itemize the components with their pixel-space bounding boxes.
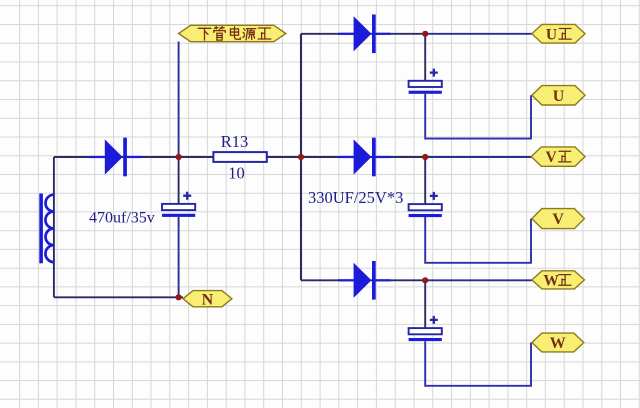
inductor core bar <box>39 194 43 264</box>
wire: row3 bottom diode row to port W正 <box>301 279 425 281</box>
svg-text:W: W <box>543 273 559 290</box>
diode D3 (V rectifier) <box>338 138 391 177</box>
junction V+ node <box>422 154 428 160</box>
port V正 <box>531 147 585 166</box>
wire: drop from port 下管电源正 to R13 node <box>178 42 180 158</box>
capacitor C4 470uf/35v <box>162 192 195 217</box>
junction R13 left node <box>176 154 182 160</box>
wire: row2 right of bus to port V正 <box>301 156 425 158</box>
junction W+ node <box>422 277 428 283</box>
svg-text:V: V <box>545 149 557 166</box>
port N <box>183 291 232 309</box>
svg-text:V: V <box>552 211 564 228</box>
svg-text:W: W <box>550 335 566 352</box>
resistor R13 <box>213 152 266 162</box>
wire: C3 top stub <box>424 280 426 328</box>
wire: bottom-left horizontal to N <box>54 296 183 298</box>
diode D4 (W rectifier) <box>338 261 391 300</box>
wire: row2 horizontal (left loop top / R13 row) <box>54 156 301 158</box>
capacitor C1 330UF (U) <box>409 69 442 94</box>
port W <box>532 333 584 352</box>
svg-text:U: U <box>546 26 557 43</box>
svg-text:330UF/25V*3: 330UF/25V*3 <box>308 188 403 207</box>
junction bus node <box>298 154 304 160</box>
wire: C3 bottom return loop to port W <box>425 341 531 386</box>
capacitor C3 330UF (W) <box>409 316 442 341</box>
port U <box>532 86 585 105</box>
diode D1 (input) <box>89 138 142 177</box>
diode D2 (U rectifier) <box>338 15 391 54</box>
wire: middle vertical bus <box>300 34 302 280</box>
inductor L1 (choke winding) <box>45 195 53 262</box>
junction U+ node <box>422 31 428 37</box>
wire: left loop vertical <box>53 157 55 297</box>
wire: C1 bottom return loop to port U <box>425 94 531 139</box>
port 下管电源正 <box>179 25 286 41</box>
wire: C2 top stub <box>424 157 426 204</box>
svg-text:10: 10 <box>228 164 245 183</box>
svg-text:R13: R13 <box>221 132 249 151</box>
svg-text:N: N <box>202 291 214 308</box>
wire: 470uf cap column <box>178 157 180 204</box>
capacitor C2 330UF (V) <box>409 192 442 217</box>
port U正 <box>532 24 585 43</box>
wire: row1 top diode row <box>301 33 425 35</box>
junction N node <box>176 294 182 300</box>
svg-text:470uf/35v: 470uf/35v <box>89 210 155 227</box>
port W正 <box>532 271 585 290</box>
port V <box>532 209 585 229</box>
wire: C1 top stub <box>424 34 426 81</box>
wire: C2 bottom return loop to port V <box>425 216 531 263</box>
svg-text:U: U <box>553 88 565 105</box>
